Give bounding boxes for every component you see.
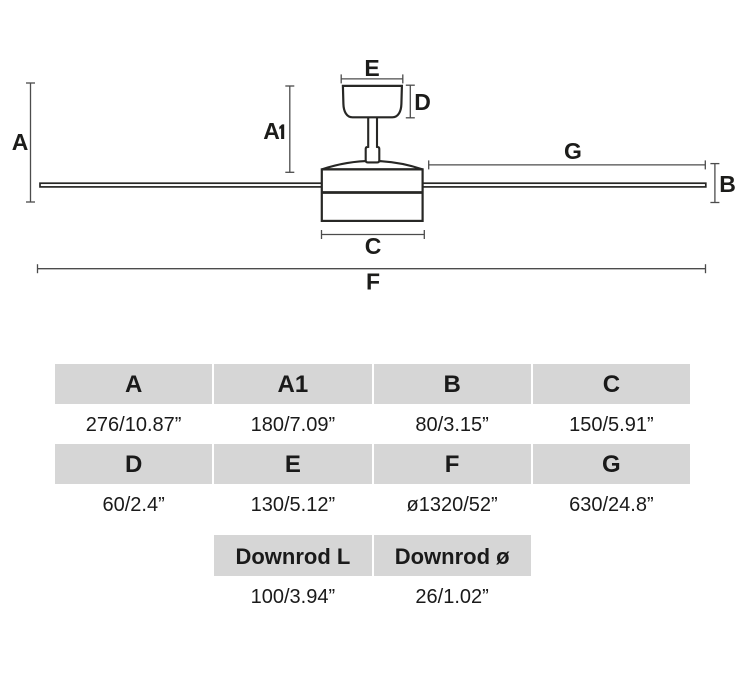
table header A1 [214, 364, 371, 404]
svg-text:C: C [365, 233, 382, 259]
downrod [367, 117, 378, 148]
value B [374, 404, 531, 444]
downrod coupling [366, 147, 380, 163]
svg-text:B: B [719, 171, 736, 197]
value A [55, 404, 212, 444]
svg-text:A: A [12, 129, 29, 155]
value C [533, 404, 690, 444]
value F [374, 484, 531, 524]
dimension B line [710, 164, 719, 203]
table header Downrod L [214, 535, 371, 576]
value Downrod diameter [374, 576, 531, 616]
dimension D line [406, 85, 415, 118]
motor housing body [322, 169, 423, 221]
value Downrod L [214, 576, 371, 616]
svg-text:F: F [366, 269, 380, 295]
dimension A line [26, 83, 35, 202]
dimension F line [38, 264, 706, 273]
svg-text:E: E [364, 55, 379, 81]
svg-text:A: A [263, 118, 280, 144]
value D [55, 484, 212, 524]
table header D [55, 444, 212, 484]
value E [214, 484, 371, 524]
table header C [533, 364, 690, 404]
dimension table [55, 364, 690, 616]
svg-text:D: D [414, 89, 431, 115]
table header F [374, 444, 531, 484]
motor housing divider line [322, 191, 423, 194]
table header A [55, 364, 212, 404]
value G [533, 484, 690, 524]
table header G [533, 444, 690, 484]
svg-text:G: G [564, 138, 582, 164]
value A1 [214, 404, 371, 444]
table header E [214, 444, 371, 484]
motor housing top dome [322, 161, 423, 169]
dimension A1 line [285, 86, 294, 172]
dimension G line [429, 160, 706, 169]
dimension C line [322, 230, 425, 239]
table header Downrod diameter [374, 535, 531, 576]
canopy [343, 86, 402, 117]
table header B [374, 364, 531, 404]
dimension E line [341, 74, 403, 83]
blade [40, 183, 706, 187]
